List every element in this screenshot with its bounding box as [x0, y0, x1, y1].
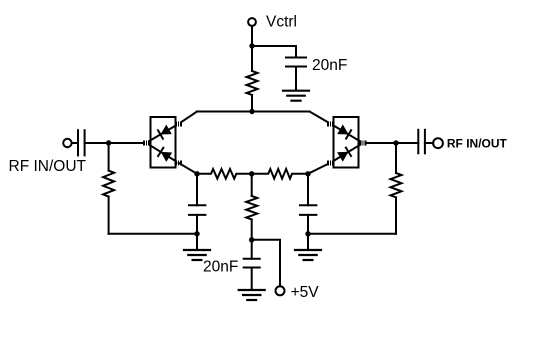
pin 1 of U2 (right, common cathode) [360, 141, 367, 146]
node G (left ground junction) [194, 231, 199, 236]
wire Vctrl to node A [251, 26, 253, 46]
pin 3 of U2 (bottom left) [327, 161, 334, 166]
wire bottom-left diagonal [179, 163, 197, 174]
terminal RF IN/OUT left [63, 139, 71, 147]
node J (right RF junction) [393, 140, 398, 145]
wire C5 to node I [307, 215, 309, 234]
diode D3 (U2 upper) [331, 124, 364, 143]
wire terminal to C1 [72, 142, 78, 144]
node D (mid rail left) [194, 171, 199, 176]
wire bottom-right diagonal [308, 163, 331, 174]
pin 1 of U1 (left, common cathode) [143, 141, 150, 146]
wire node I to R6 bottom [308, 233, 396, 235]
resistor R3 (mid rail left) [197, 169, 252, 179]
wire top-right diagonal [310, 112, 331, 124]
wire node F down to C5 [307, 174, 309, 205]
svg-text:Vctrl: Vctrl [266, 14, 297, 31]
wire node H to C4 [251, 240, 253, 259]
wire node I to ground [307, 234, 309, 250]
svg-text:20nF: 20nF [203, 258, 238, 275]
svg-text:20nF: 20nF [312, 57, 347, 74]
node I (right ground junction) [305, 231, 310, 236]
resistor R1 (left shunt) [103, 143, 114, 234]
wire C2 to ground [295, 67, 297, 91]
pin 3 of U1 (bottom right) [175, 161, 182, 166]
wire node G to ground [196, 234, 198, 250]
node E (mid rail center) [249, 171, 254, 176]
wire C3 to node G [196, 215, 198, 234]
diode D1 (U1 upper) [146, 124, 179, 143]
terminal +5V [276, 286, 285, 295]
wire node A to C2 [252, 46, 296, 58]
wire top rail [197, 111, 310, 113]
svg-text:RF IN/OUT: RF IN/OUT [9, 158, 87, 175]
resistor R6 (right shunt) [391, 143, 402, 234]
node A (Vctrl junction) [249, 43, 254, 48]
capacitor C5 (right bypass) [300, 204, 316, 206]
capacitor C2 20nF [286, 57, 306, 59]
pin 2 of U1 (top right) [175, 122, 182, 127]
dual diode package U1 (left) [151, 117, 176, 168]
capacitor C1 (RF coupling, left) [77, 130, 79, 155]
wire node H to +5V terminal [252, 240, 280, 286]
terminal Vctrl [248, 18, 256, 26]
wire C6 to terminal [425, 142, 433, 144]
resistor R2 (bias, Vctrl) [247, 46, 258, 112]
node B (top rail center) [249, 109, 254, 114]
dual diode package U2 (right) [334, 117, 359, 168]
ground G1 [283, 91, 309, 101]
wire C1 to U1 pin 1 [85, 142, 144, 144]
capacitor C6 (RF coupling, right) [417, 130, 419, 154]
node H (center bottom junction) [249, 237, 254, 242]
capacitor C3 (left bypass) [189, 204, 205, 206]
node C (left RF junction) [106, 140, 111, 145]
capacitor C4 20nF (bottom bypass) [244, 258, 260, 260]
wire R1 bottom to node D [109, 233, 197, 235]
wire node D down to C3 [196, 174, 198, 205]
wire top-left diagonal [179, 112, 197, 124]
diode D4 (U2 lower) [331, 143, 364, 163]
wire C4 to ground [251, 268, 253, 291]
svg-text:+5V: +5V [291, 284, 320, 301]
ground G2 [184, 250, 210, 260]
ground G3 [239, 290, 265, 300]
resistor R4 (mid rail right) [252, 169, 308, 179]
node F (mid rail right) [305, 171, 310, 176]
wire U2 pin 1 to node J [366, 142, 418, 144]
ground G4 [295, 250, 321, 260]
resistor R5 (center bias) [246, 174, 257, 240]
svg-text:RF IN/OUT: RF IN/OUT [447, 137, 508, 151]
diode D2 (U1 lower) [146, 143, 179, 163]
pin 2 of U2 (top left) [327, 122, 334, 127]
terminal RF IN/OUT right [433, 138, 443, 148]
